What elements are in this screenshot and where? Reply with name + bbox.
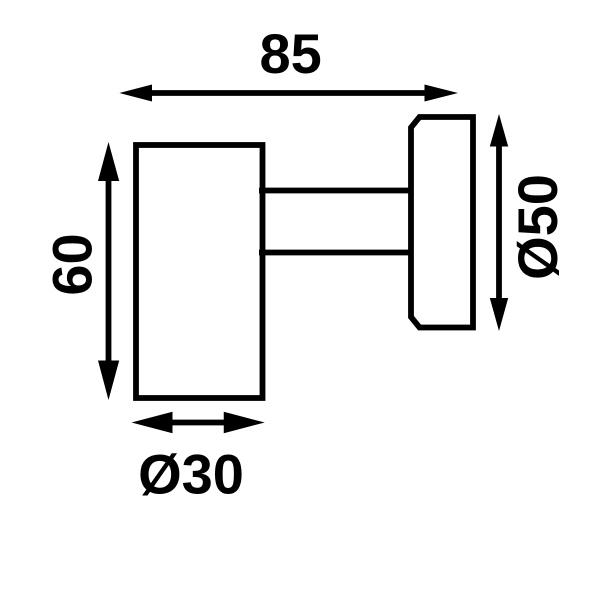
svg-text:Ø50: Ø50	[506, 174, 569, 280]
dimension diameter 50: bottom arrowhead	[490, 298, 508, 331]
body rectangle (cylinder side view)	[136, 145, 263, 398]
dimension diameter 30: left arrowhead	[132, 412, 173, 433]
dimension diameter 30: right arrowhead	[224, 412, 265, 433]
dimension diameter 30: horizontal line	[160, 420, 236, 426]
dimension 60: bottom arrowhead	[98, 361, 119, 401]
stem bottom line	[259, 250, 412, 256]
dimension 85: left arrowhead	[119, 85, 152, 102]
dimension 85: right arrowhead	[425, 85, 459, 102]
svg-text:Ø30: Ø30	[138, 443, 244, 506]
dimension diameter 50: vertical line	[496, 143, 502, 302]
stem top line	[259, 188, 412, 194]
dimension 85: horizontal line	[147, 90, 430, 96]
svg-text:60: 60	[41, 233, 104, 295]
dimension 60: top arrowhead	[98, 142, 119, 181]
dimension 60: vertical line	[106, 170, 112, 372]
wall plate with chamfered left corners	[411, 117, 473, 328]
svg-text:85: 85	[259, 22, 321, 85]
dimension diameter 50: top arrowhead	[490, 114, 508, 147]
